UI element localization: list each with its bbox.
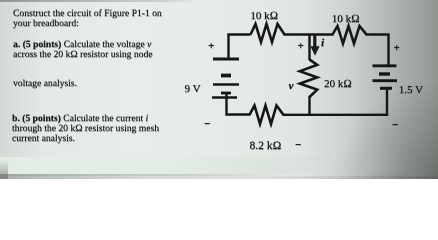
resistor R4 8.2 kOhm (bottom) xyxy=(250,106,284,125)
scan bottom light strip xyxy=(0,157,438,174)
scan bottom dark edge line xyxy=(0,174,280,177)
problem text paragraph a xyxy=(13,40,193,60)
scan bottom-right dark vignette xyxy=(288,79,438,179)
circuit schematic xyxy=(0,0,438,179)
label + battery V2 xyxy=(394,43,400,54)
label 20 kOhm R3 xyxy=(324,79,352,90)
battery V1 9V plate long 3 xyxy=(212,96,237,99)
problem text line voltage analysis xyxy=(13,79,193,89)
wire top-right corner (R2 to battery V2 +) xyxy=(366,35,389,66)
battery V2 1.5V plate long 2 xyxy=(373,79,398,82)
problem text paragraph b xyxy=(12,114,192,144)
battery V1 9V plate short 1 xyxy=(221,74,231,78)
label 10 kOhm R2 xyxy=(332,14,360,25)
battery V2 1.5V plate short 1 xyxy=(379,72,390,75)
current arrow i (downward) xyxy=(310,35,319,56)
label - battery V1 xyxy=(204,119,210,130)
battery V1 9V plate short 2 xyxy=(221,92,231,95)
label 8.2 kOhm R4 xyxy=(250,141,282,153)
resistor R3 20 kOhm (middle vertical) xyxy=(300,60,317,98)
problem text paragraph 1 xyxy=(13,9,193,29)
battery V1 9V plate long 2 xyxy=(213,83,239,85)
label 10 kOhm R1 xyxy=(250,11,278,22)
resistor R1 10 kOhm (top left) xyxy=(251,24,285,42)
wire top-left corner (battery V1 + to node A) xyxy=(229,35,251,59)
wire R3 bottom to bottom rail xyxy=(308,96,310,116)
wire top-middle (R1 to node with R3) xyxy=(284,33,334,35)
wire bottom rail (R4 to battery V2 -) xyxy=(283,89,388,115)
label 1.5 V battery V2 xyxy=(399,85,423,96)
scan bottom edge soft shade xyxy=(0,176,438,180)
label v (voltage across R3, italic) xyxy=(289,81,294,92)
label - node voltage v xyxy=(295,140,301,151)
battery V1 9V plate long 1 xyxy=(213,58,239,61)
battery V2 1.5V plate short 2 xyxy=(380,87,392,90)
label + battery V1 xyxy=(208,41,214,52)
wire bottom-left corner (battery V1 - to R4) xyxy=(227,94,251,115)
label - battery V2 xyxy=(392,120,398,131)
scan left bottom corner dark spot xyxy=(0,160,8,179)
resistor R2 10 kOhm (top right) xyxy=(333,26,367,44)
scan top edge shading xyxy=(0,0,200,2)
label 9 V battery V1 xyxy=(185,84,201,95)
battery V2 1.5V plate long 1 xyxy=(373,64,397,67)
label i current (italic) xyxy=(321,38,324,49)
wire node A down to R3 top xyxy=(308,34,310,61)
label + node voltage v xyxy=(298,41,304,52)
